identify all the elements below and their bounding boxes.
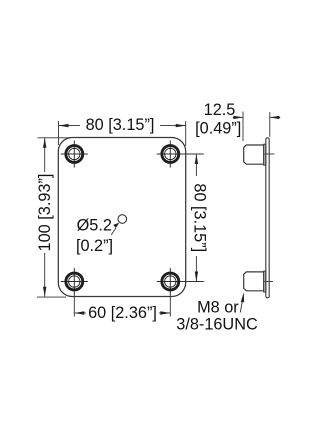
dimension 12.5: left outside arrow tail xyxy=(233,116,243,118)
bottom dimension 60: dimension line left segment xyxy=(74,312,86,314)
top dimension 80: dimension line left segment xyxy=(59,125,81,127)
side view: bottom flange xyxy=(264,271,266,292)
svg-text:100 [3.93”]: 100 [3.93”] xyxy=(36,174,54,252)
thread label leader line xyxy=(240,297,243,313)
dimension 12.5: right arrowhead (pointing left) xyxy=(270,116,280,119)
left dimension 100: extension line bottom xyxy=(37,296,66,298)
top dimension 80: extension line left xyxy=(58,121,60,145)
left dimension 100: extension line top xyxy=(38,137,72,139)
hole top-right xyxy=(157,141,184,168)
hole bottom-right xyxy=(157,268,184,295)
right dimension 80: dimension line top segment xyxy=(195,154,197,176)
right dimension 80: top arrowhead xyxy=(195,154,198,164)
bottom dimension 60: extension line right xyxy=(169,295,171,317)
left dimension 100: top arrowhead xyxy=(43,138,46,148)
top dimension 80: extension line right xyxy=(185,121,187,146)
leader line to center hole xyxy=(111,228,116,235)
svg-text:80 [3.15”]: 80 [3.15”] xyxy=(191,183,209,252)
svg-text:3/8-16UNC: 3/8-16UNC xyxy=(176,315,258,333)
svg-text:[0.2”]: [0.2”] xyxy=(76,237,113,255)
left dimension 100: dimension line bottom segment xyxy=(44,253,46,297)
hole top-left xyxy=(61,141,88,168)
bottom dimension 60: right arrowhead xyxy=(160,311,170,314)
dimension 12.5: right outside arrow tail xyxy=(270,116,281,118)
svg-text:[0.49”]: [0.49”] xyxy=(195,120,241,138)
dimension 12.5: left arrowhead (pointing right) xyxy=(233,116,243,119)
svg-text:12.5: 12.5 xyxy=(204,101,236,119)
side view: centreline tick top xyxy=(265,153,275,155)
left dimension 100: dimension line top segment xyxy=(44,138,46,172)
right dimension 80: bottom arrowhead xyxy=(195,272,198,282)
side view: bottom stud xyxy=(244,272,264,291)
side view: main plate xyxy=(266,138,269,298)
hole bottom-left xyxy=(61,268,88,295)
top dimension 80: left arrowhead xyxy=(59,124,69,127)
dimension 12.5: extension line right xyxy=(269,112,271,137)
svg-text:60 [2.36”]: 60 [2.36”] xyxy=(88,304,157,322)
bottom dimension 60: dimension line right segment xyxy=(159,312,170,314)
side view: top stud xyxy=(244,145,264,164)
top dimension 80: right arrowhead xyxy=(176,124,186,127)
right dimension 80: extension line bottom (from hole centre) xyxy=(184,281,204,283)
leader arrowhead xyxy=(113,223,119,228)
thread label leader arrowhead xyxy=(241,292,244,302)
svg-text:M8 or: M8 or xyxy=(197,298,239,316)
side view: centreline tick bottom xyxy=(265,281,273,283)
right dimension 80: dimension line bottom segment xyxy=(195,256,197,282)
svg-text:Ø5.2: Ø5.2 xyxy=(77,217,112,235)
plate outline (front view) xyxy=(58,138,185,297)
svg-text:80 [3.15”]: 80 [3.15”] xyxy=(86,116,155,134)
top dimension 80: dimension line right segment xyxy=(160,125,186,127)
bottom dimension 60: extension line left xyxy=(73,295,75,317)
side view: top flange xyxy=(264,144,266,165)
left dimension 100: bottom arrowhead xyxy=(43,287,46,297)
bottom dimension 60: left arrowhead xyxy=(74,311,84,314)
center hole Ø5.2 xyxy=(118,215,127,224)
right dimension 80: extension line top (from hole centre) xyxy=(184,153,204,155)
dimension 12.5: extension line left xyxy=(242,112,244,142)
